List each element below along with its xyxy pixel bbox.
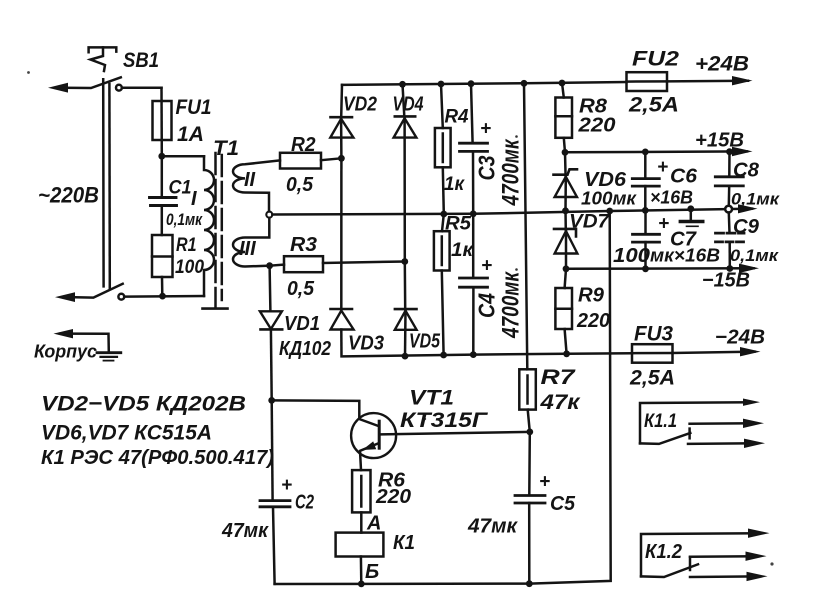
svg-text:0,1мк: 0,1мк (731, 190, 780, 209)
svg-text:VD1: VD1 (284, 313, 320, 335)
svg-text:мк×16В: мк×16В (650, 246, 720, 266)
svg-text:4700мк: 4700мк (498, 271, 525, 339)
svg-text:~220В: ~220В (38, 183, 99, 208)
svg-text:VD4: VD4 (393, 94, 424, 116)
svg-text:FU1: FU1 (176, 96, 212, 119)
svg-text:+: + (281, 475, 292, 496)
svg-text:Б: Б (365, 561, 379, 583)
svg-text:0,1мк: 0,1мк (730, 246, 779, 265)
svg-text:R2: R2 (291, 134, 316, 156)
svg-text:+: + (481, 256, 492, 277)
svg-text:100: 100 (613, 245, 650, 267)
svg-text:VD2: VD2 (343, 94, 377, 116)
svg-text:R1: R1 (176, 235, 197, 256)
svg-text:C9: C9 (733, 216, 760, 238)
svg-text:VD3: VD3 (348, 333, 384, 355)
svg-text:II: II (244, 169, 256, 191)
svg-text:FU3: FU3 (634, 323, 673, 346)
svg-text:0,5: 0,5 (287, 278, 315, 300)
svg-text:К1 РЭС 47(РФ0.500.417): К1 РЭС 47(РФ0.500.417) (41, 447, 274, 469)
svg-text:R7: R7 (541, 366, 577, 389)
svg-text:VD7: VD7 (569, 212, 611, 233)
svg-text:2,5A: 2,5A (628, 94, 679, 117)
svg-text:VD6,VD7 КС515А: VD6,VD7 КС515А (41, 421, 212, 445)
svg-text:C8: C8 (733, 160, 760, 182)
svg-text:C4: C4 (474, 293, 500, 318)
svg-text:C1: C1 (169, 178, 192, 199)
svg-text:C5: C5 (550, 493, 576, 515)
svg-text:R3: R3 (290, 234, 317, 256)
svg-text:К1.1: К1.1 (644, 411, 677, 432)
svg-text:0,1мк: 0,1мк (166, 210, 203, 229)
svg-text:220: 220 (576, 310, 610, 332)
svg-text:220: 220 (577, 115, 615, 137)
svg-text:−15В: −15В (702, 270, 750, 292)
svg-text:47мк: 47мк (467, 516, 518, 538)
svg-text:100мк: 100мк (581, 189, 637, 209)
svg-text:+24В: +24В (695, 53, 749, 76)
svg-text:4700мк: 4700мк (498, 138, 525, 206)
svg-text:VT1: VT1 (409, 387, 454, 410)
svg-text:FU2: FU2 (632, 48, 679, 71)
svg-text:III: III (239, 238, 256, 260)
svg-text:−24В: −24В (715, 327, 765, 349)
svg-text:1к: 1к (451, 240, 474, 261)
svg-text:К1: К1 (393, 532, 415, 554)
svg-text:100: 100 (175, 257, 204, 278)
svg-text:1A: 1A (177, 123, 204, 146)
svg-text:VD5: VD5 (409, 331, 441, 353)
svg-text:R5: R5 (445, 214, 471, 235)
svg-text:2,5A: 2,5A (629, 367, 675, 390)
svg-text:КТ315Г: КТ315Г (400, 409, 488, 432)
svg-text:×16В: ×16В (650, 188, 693, 208)
svg-text:R9: R9 (578, 285, 605, 307)
svg-text:Корпус: Корпус (34, 341, 98, 362)
svg-text:+: + (658, 214, 669, 235)
svg-text:1к: 1к (444, 174, 465, 195)
svg-text:+: + (539, 472, 550, 493)
svg-text:T1: T1 (213, 137, 239, 160)
svg-text:SB1: SB1 (123, 49, 159, 72)
svg-text:0,5: 0,5 (286, 174, 314, 196)
svg-text:C2: C2 (295, 492, 314, 514)
svg-text:R4: R4 (445, 107, 469, 128)
svg-text:220: 220 (375, 486, 411, 508)
svg-text:+15В: +15В (695, 130, 744, 152)
svg-text:47мк: 47мк (221, 520, 269, 542)
svg-text:+: + (480, 119, 491, 140)
svg-text:+: + (657, 157, 668, 178)
svg-text:47к: 47к (539, 391, 581, 414)
svg-text:C6: C6 (670, 166, 698, 188)
svg-text:I: I (191, 188, 197, 210)
svg-text:К1.2: К1.2 (645, 541, 682, 563)
svg-text:КД102: КД102 (279, 338, 331, 360)
svg-text:C3: C3 (474, 155, 500, 180)
svg-text:VD2−VD5 КД202В: VD2−VD5 КД202В (41, 392, 246, 416)
svg-text:А: А (366, 513, 381, 535)
